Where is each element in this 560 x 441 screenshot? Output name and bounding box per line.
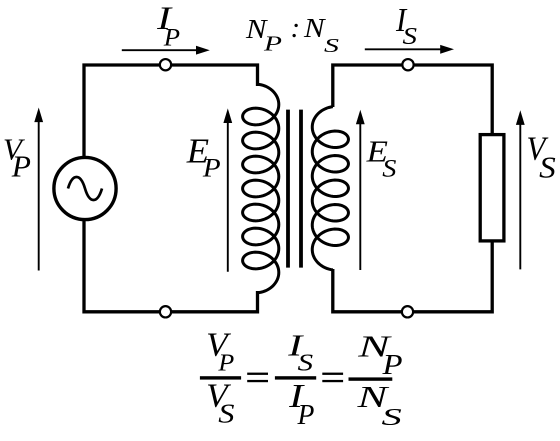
arrow current IP bbox=[196, 46, 210, 55]
svg-text:P: P bbox=[297, 400, 315, 431]
equation numerator IS bbox=[287, 328, 313, 376]
load resistor R bbox=[480, 135, 504, 241]
AC source circle bbox=[54, 157, 116, 219]
svg-text:P: P bbox=[11, 149, 31, 184]
svg-text:S: S bbox=[218, 399, 234, 429]
label VP bbox=[3, 132, 31, 184]
svg-text::: : bbox=[291, 12, 301, 44]
equation numerator NP bbox=[357, 330, 403, 381]
wire bottom-right run: load resistor to secondary coil exit bbox=[333, 241, 492, 312]
wire top-right run: secondary coil entry to load resistor bbox=[333, 65, 492, 135]
node terminal bottom-left bbox=[160, 306, 171, 317]
svg-text:P: P bbox=[217, 350, 234, 376]
svg-text:S: S bbox=[324, 34, 339, 57]
equation numerator VP bbox=[206, 326, 234, 376]
equation fraction bar 3 bbox=[349, 377, 393, 380]
equation denominator VS bbox=[206, 377, 234, 429]
svg-text:S: S bbox=[382, 404, 403, 431]
arrow current IS bbox=[440, 45, 454, 54]
inductor primary winding (7 turns) bbox=[243, 84, 279, 293]
label ES bbox=[366, 135, 397, 182]
inductor secondary winding (5 turns) bbox=[312, 107, 348, 270]
equation denominator IP bbox=[288, 378, 314, 431]
wire bottom-left run: primary coil exit to AC source bbox=[84, 220, 258, 312]
arrow EMF EP bbox=[223, 108, 232, 123]
equation fraction bar 1 bbox=[200, 376, 241, 379]
equation denominator NS bbox=[356, 380, 402, 430]
label IP bbox=[156, 1, 180, 51]
svg-text:S: S bbox=[403, 22, 418, 49]
equation equals sign 1 bbox=[247, 373, 268, 383]
arrow EMF ES bbox=[356, 110, 365, 125]
transformer core line 2 bbox=[299, 110, 303, 268]
arrow voltage VP bbox=[34, 108, 43, 123]
label EP bbox=[186, 131, 221, 183]
svg-text:P: P bbox=[163, 23, 181, 51]
arrow voltage VS bbox=[516, 110, 525, 125]
svg-text:P: P bbox=[381, 348, 402, 381]
node terminal bottom-right bbox=[402, 306, 413, 317]
transformer core line 1 bbox=[286, 110, 290, 268]
svg-text:S: S bbox=[298, 350, 314, 377]
svg-text:P: P bbox=[202, 153, 221, 183]
equation fraction bar 2 bbox=[275, 376, 316, 379]
wire top-left run: AC source to primary coil entry bbox=[84, 65, 258, 158]
svg-text:S: S bbox=[382, 154, 396, 182]
svg-text:N: N bbox=[303, 13, 326, 43]
label VS bbox=[527, 129, 556, 184]
svg-text:P: P bbox=[263, 31, 282, 55]
label IS bbox=[395, 1, 417, 49]
AC source sine wave bbox=[68, 177, 102, 200]
node terminal top-left bbox=[160, 59, 171, 70]
label NP : NS turns ratio bbox=[245, 12, 339, 57]
node terminal top-right bbox=[402, 59, 413, 70]
svg-text:S: S bbox=[539, 150, 556, 185]
equation equals sign 2 bbox=[322, 373, 343, 383]
